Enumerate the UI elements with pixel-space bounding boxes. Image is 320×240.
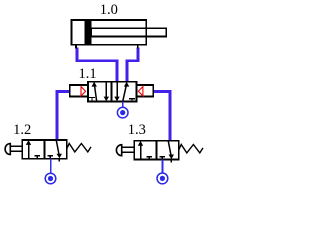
valve 1.1 right box blocked port T [129,99,135,102]
valve 1.1 left pilot box [70,85,88,97]
cylinder 1.0 piston [85,20,92,45]
svg-text:1.3: 1.3 [128,122,146,138]
source for valve 1.2 [45,173,56,184]
valve 1.3 right box diagonal exhaust arrow [168,141,171,155]
wire: valve 1.3 output to right pilot of valve 1.1 [153,91,170,141]
wire: valve 1.1 port 1 to source [122,102,124,108]
valve 1.1 right box diagonal up arrow [123,86,126,101]
valve 1.1 body [88,82,137,102]
valve 1.1 right pilot box [137,85,154,97]
wire: valve 1.2 port 1 to source [50,159,52,174]
valve 1.2 body [22,140,66,159]
valve 1.3 left box up arrow [140,145,142,159]
svg-text:1.0: 1.0 [100,2,118,18]
valve 1.1 divider [110,82,112,102]
valve 1.1 left box diagonal up arrow [95,85,97,100]
valve 1.3 exhaust stub [170,159,172,162]
valve 1.1 right pilot triangle [138,87,143,96]
wire: tube A cylinder left port to valve 1.1 port 4 [77,48,117,83]
wire: valve 1.3 port 1 to source [162,159,164,174]
valve 1.2 spring [67,144,91,152]
valve 1.2 left box up arrow [28,144,30,158]
wire: tube B cylinder right port to valve 1.1 port 2 [127,48,138,83]
valve 1.2 divider [43,140,45,159]
valve 1.1 right box vertical down arrow [116,82,118,97]
valve 1.3 left box blocked port T [147,157,153,160]
svg-text:1.1: 1.1 [78,66,96,82]
valve 1.3 spring [179,145,203,153]
valve 1.2 push button [5,144,10,155]
valve 1.3 mushroom button [116,145,121,156]
wire: valve 1.2 output to left pilot of valve 1.1 [57,91,70,140]
source for valve 1.1 [117,107,128,118]
valve 1.1 left pilot triangle [81,87,86,96]
cylinder 1.0 right port stub [137,45,139,49]
valve 1.3 body [134,141,178,160]
cylinder 1.0 left port stub [75,45,77,49]
valve 1.3 right box blocked port T [160,157,166,160]
valve 1.2 exhaust stub [58,159,60,162]
cylinder 1.0 body [71,20,146,45]
valve 1.2 left box blocked port T [35,156,41,159]
cylinder 1.0 piston rod [91,28,166,36]
valve 1.2 right box diagonal exhaust arrow [56,140,59,154]
valve 1.1 left box blocked port T [89,98,95,102]
source for valve 1.3 [157,173,168,184]
valve 1.2 right box blocked port T [48,156,54,159]
valve 1.3 divider [156,141,158,160]
valve 1.1 left box vertical down arrow [105,82,107,97]
svg-text:1.2: 1.2 [13,122,31,138]
